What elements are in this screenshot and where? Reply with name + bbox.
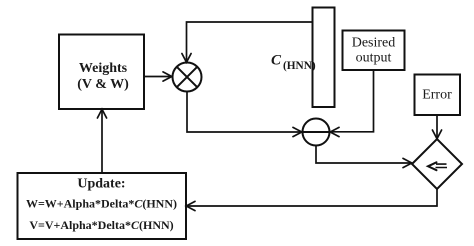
svg-text:V=V+Alpha*Delta*C(HNN): V=V+Alpha*Delta*C(HNN) — [29, 218, 173, 232]
block HNN tall rectangle — [313, 8, 335, 108]
block Update — [18, 173, 187, 239]
svg-text:(HNN): (HNN) — [283, 60, 316, 72]
wire subtractor to comparator diamond — [316, 146, 412, 168]
svg-text:Update:: Update: — [77, 177, 125, 192]
svg-text:output: output — [356, 51, 392, 66]
wire feedback from HNN block top to multiplier — [182, 22, 312, 62]
svg-text:Desired: Desired — [352, 36, 396, 51]
svg-text:(V & W): (V & W) — [77, 77, 129, 92]
svg-text:C: C — [271, 53, 282, 69]
block Weights (V & W) — [59, 35, 144, 110]
wire Desired output down to subtractor — [330, 70, 373, 137]
wire Update up to Weights — [97, 109, 106, 173]
wire multiplier down to subtractor — [187, 92, 302, 137]
subtractor circle — [303, 119, 330, 146]
block Error — [415, 75, 461, 116]
multiplier circle X — [173, 63, 202, 92]
block Desired output — [343, 31, 405, 71]
svg-text:Error: Error — [422, 88, 452, 103]
svg-text:W=W+Alpha*Delta*C(HNN): W=W+Alpha*Delta*C(HNN) — [26, 197, 177, 211]
svg-text:Weights: Weights — [79, 61, 128, 76]
label C(HNN) — [271, 53, 316, 73]
wire Error down to comparator — [432, 115, 441, 139]
comparator diamond — [412, 139, 462, 189]
wire Weights to multiplier — [144, 72, 172, 81]
wire comparator down-left to Update box — [186, 189, 437, 211]
